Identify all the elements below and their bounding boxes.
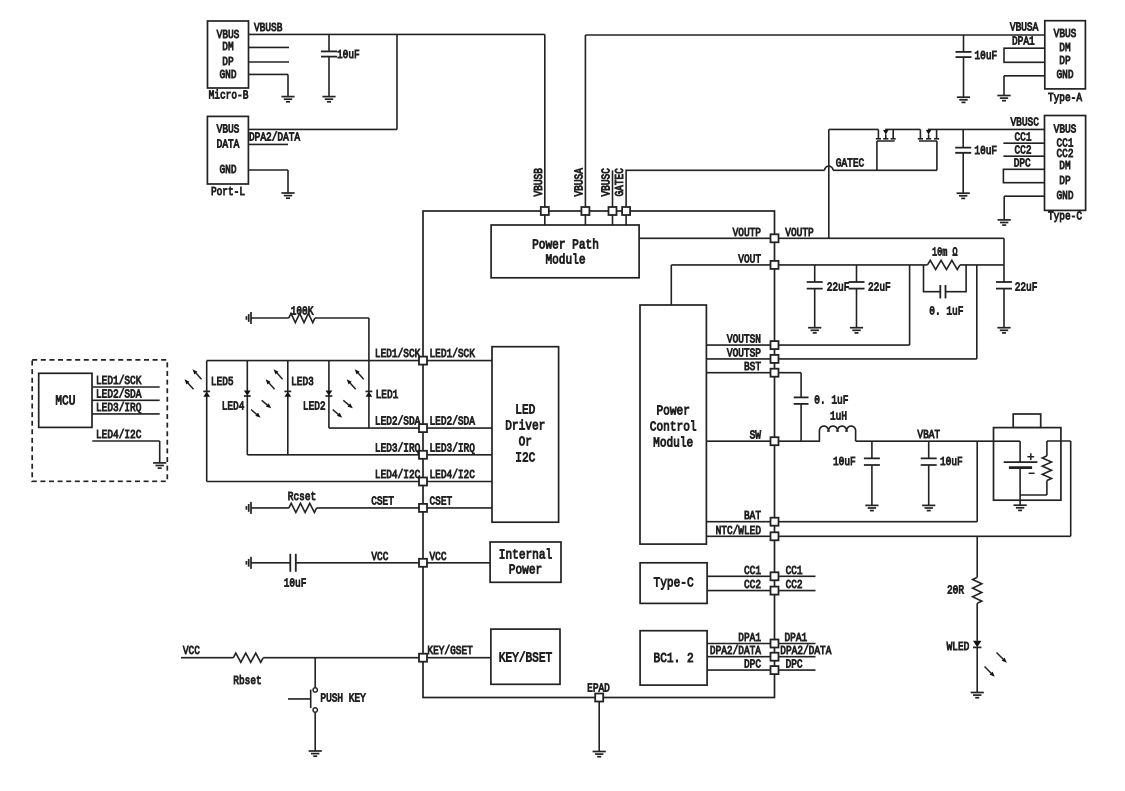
ground Type-A: [997, 96, 1010, 101]
LED D3 branch: [284, 361, 291, 455]
svg-text:LED1: LED1: [376, 388, 399, 402]
svg-text:LED4/I2C: LED4/I2C: [96, 428, 141, 442]
resistor R4 Rcset: [251, 490, 423, 513]
net label NTC/WLED inside: [716, 524, 761, 538]
svg-text:LED3/IRQ: LED3/IRQ: [96, 401, 141, 415]
ground R3 100K: [246, 312, 251, 324]
pin VOUTP: [771, 234, 779, 242]
wire DATA stub: [248, 143, 288, 145]
wire DPC stub: [779, 669, 816, 671]
net label KEY/GSET inside: [427, 644, 472, 658]
wire VBUSB pin stub: [544, 211, 546, 225]
net label DPC outside: [786, 658, 803, 672]
svg-text:LED3/IRQ: LED3/IRQ: [430, 441, 475, 455]
net label VBUSA rotated: [572, 168, 586, 197]
wire VBUSA pin stub: [584, 211, 586, 225]
connector J3 Type-A: [1045, 21, 1086, 105]
svg-text:DM: DM: [222, 40, 233, 54]
wire VBAT rail: [856, 440, 1020, 442]
wire Type-C GND: [1004, 196, 1044, 220]
net label LED3/IRQ left: [375, 441, 420, 455]
wire GATEC pin stub: [625, 211, 627, 225]
ground C4: [808, 328, 821, 333]
pin LED4/I2C: [419, 478, 427, 486]
svg-text:CSET: CSET: [430, 495, 453, 509]
svg-text:10uF: 10uF: [284, 577, 307, 591]
svg-text:Power Path: Power Path: [532, 237, 599, 253]
wire MCU LED3/IRQ stub: [92, 413, 160, 415]
wire VOUTSP to sense: [779, 265, 977, 359]
wire MCU LED4/I2C stub: [92, 441, 159, 463]
pin EPAD: [595, 694, 603, 702]
block Internal Power: [490, 542, 561, 582]
svg-text:DP: DP: [1059, 174, 1070, 188]
net label EPAD: [587, 681, 610, 695]
wire BAT to VBAT: [779, 441, 978, 522]
LED D2 emission arrows: [333, 400, 353, 417]
svg-text:Type-A: Type-A: [1048, 91, 1083, 105]
svg-text:VBUSB: VBUSB: [532, 168, 546, 196]
svg-text:I2C: I2C: [515, 450, 535, 466]
net label VBUSA: [1010, 21, 1039, 35]
pin LED1/SCK: [419, 357, 427, 365]
wire VOUT rail: [779, 264, 1005, 266]
pin NTC/WLED: [771, 532, 779, 540]
svg-text:LED1/SCK: LED1/SCK: [96, 374, 142, 388]
svg-text:DATA: DATA: [217, 138, 240, 152]
net label DPA2/DATA outside: [780, 644, 832, 658]
wire Micro-B GND: [249, 74, 289, 96]
net label CC2 inside: [744, 578, 761, 592]
net label VCC inside: [430, 550, 447, 564]
svg-text:DP: DP: [222, 55, 233, 69]
net label LED4/I2C left: [375, 468, 420, 482]
wire CC1: [707, 575, 774, 577]
pin VOUTSN: [771, 341, 779, 349]
net label CC2 outside: [786, 578, 803, 592]
wire VBUSC pin stub: [612, 170, 614, 225]
capacitor C2 10uF: [956, 35, 998, 97]
pin BST: [771, 369, 779, 377]
svg-text:Rbset: Rbset: [233, 674, 261, 688]
wire CC2 stub: [779, 590, 816, 592]
capacitor C8 0.1uF BST: [779, 373, 849, 442]
wire LED3/IRQ inside: [427, 454, 492, 456]
net label CSET inside: [430, 495, 453, 509]
ground C9: [865, 505, 878, 510]
wire NTC/WLED rail: [779, 535, 1071, 537]
wire WLED drop: [976, 536, 978, 577]
net label LED3/IRQ inside: [430, 441, 475, 455]
LED D6 emission arrows: [985, 653, 1007, 677]
wire VBUSA rail: [585, 35, 1044, 211]
wire SW: [706, 440, 774, 442]
pin BAT: [771, 518, 779, 526]
wire VOUTSN to sense: [779, 265, 910, 345]
MCU dashed enclosure: [32, 360, 167, 481]
ground C10: [922, 505, 935, 510]
svg-text:LED2: LED2: [303, 399, 326, 413]
net label VOUTP outside: [785, 226, 813, 240]
svg-text:GATEC: GATEC: [836, 157, 864, 171]
wire Type-C CC2 stub: [1003, 155, 1044, 157]
LED D1 branch: [366, 361, 373, 429]
svg-text:VBAT: VBAT: [917, 428, 940, 442]
svg-text:MCU: MCU: [55, 394, 75, 410]
svg-text:0. 1uF: 0. 1uF: [814, 394, 848, 408]
svg-text:KEY/GSET: KEY/GSET: [427, 644, 472, 658]
svg-text:10m Ω: 10m Ω: [932, 246, 958, 260]
capacitor C1 10uF: [321, 34, 360, 96]
wire cell to NTC: [1020, 495, 1047, 505]
svg-text:Control: Control: [650, 420, 697, 436]
switch S1 push key: [288, 658, 366, 751]
net label VBUSC rotated: [600, 168, 614, 196]
wire LED2/SDA row: [329, 427, 423, 429]
resistor R5 Rbset: [181, 653, 423, 688]
block BC1.2: [640, 631, 707, 685]
svg-text:LED2/SDA: LED2/SDA: [96, 387, 142, 401]
pin VBUSA: [581, 207, 589, 215]
wire Type-A DM-DP loop: [1004, 48, 1045, 62]
svg-text:Module: Module: [653, 435, 693, 451]
net label VOUT inside: [738, 252, 761, 266]
battery BT1 pack: [994, 414, 1061, 500]
svg-text:22uF: 22uF: [868, 280, 891, 294]
net label DPC: [1014, 157, 1031, 171]
wire MCU LED1/SCK stub: [92, 386, 160, 388]
wire BST: [706, 372, 774, 374]
svg-text:DPA1: DPA1: [785, 631, 808, 645]
net label LED1/SCK inside: [430, 347, 476, 361]
inductor L1 1uH: [819, 410, 855, 442]
connector J4 Type-C: [1045, 116, 1086, 224]
ground WLED: [971, 693, 984, 698]
svg-text:Internal: Internal: [499, 548, 552, 564]
svg-text:22uF: 22uF: [1015, 280, 1038, 294]
svg-text:PUSH KEY: PUSH KEY: [320, 692, 366, 706]
LED D3 label: [291, 375, 314, 389]
capacitor C4 22uF: [807, 265, 850, 328]
block Power Control Module: [640, 305, 706, 544]
wire Port-L VBUS: [248, 34, 397, 129]
svg-text:22uF: 22uF: [827, 280, 850, 294]
capacitor C5 22uF: [849, 265, 891, 328]
wire CC1 stub: [779, 575, 816, 577]
svg-text:Micro-B: Micro-B: [209, 89, 249, 103]
net label VOUTP inside: [733, 226, 761, 240]
wire Type-C DM-DP loop: [1003, 169, 1044, 182]
svg-text:VBUSC: VBUSC: [1011, 115, 1039, 129]
svg-text:DPA2/DATA: DPA2/DATA: [249, 130, 301, 144]
svg-text:VCC: VCC: [371, 550, 388, 564]
pin CC2: [771, 587, 779, 595]
wire MCU LED2/SDA stub: [92, 399, 160, 401]
ground R4 Rcset: [246, 502, 251, 514]
ground Micro-B: [281, 97, 294, 102]
LED D1 label: [376, 388, 399, 402]
svg-text:10uF: 10uF: [337, 48, 360, 62]
svg-text:LED4/I2C: LED4/I2C: [375, 468, 420, 482]
capacitor C7 22uF: [996, 265, 1037, 328]
net label VOUTSN inside: [727, 333, 761, 347]
svg-text:GATEC: GATEC: [613, 168, 627, 196]
wire DPA2/DATA: [707, 656, 774, 658]
wire VBUSC rail left: [829, 128, 879, 130]
ground C7: [997, 328, 1010, 333]
pin VBUSB: [541, 207, 549, 215]
svg-text:KEY/BSET: KEY/BSET: [499, 651, 552, 667]
svg-text:Driver: Driver: [505, 419, 545, 435]
LED D4 branch: [244, 361, 251, 455]
net label CC1 inside: [744, 564, 761, 578]
net label GATEC rotated: [613, 168, 627, 196]
capacitor C10 10uF: [921, 441, 963, 505]
net label VBUSC: [1011, 115, 1039, 129]
pin CSET: [419, 504, 427, 512]
net label CSET left: [371, 495, 394, 509]
svg-text:DPA1: DPA1: [1012, 35, 1035, 49]
wire DPC: [707, 669, 774, 671]
svg-text:VBUSC: VBUSC: [600, 168, 614, 196]
wire CSET inside: [427, 507, 492, 509]
svg-text:Port-L: Port-L: [211, 185, 245, 199]
svg-text:10uF: 10uF: [833, 455, 856, 469]
net label MCU LED3/IRQ: [96, 401, 141, 415]
svg-text:CC1: CC1: [786, 564, 803, 578]
pin SW: [771, 437, 779, 445]
ground Type-C: [998, 220, 1011, 225]
pin VOUT: [771, 261, 779, 269]
svg-text:VBUS: VBUS: [1054, 122, 1077, 136]
LED D5 emission arrows: [185, 369, 202, 389]
net label MCU LED2/SDA: [96, 387, 142, 401]
svg-text:BC1. 2: BC1. 2: [654, 651, 694, 667]
ground C2: [957, 97, 970, 102]
svg-text:LED3/IRQ: LED3/IRQ: [375, 441, 420, 455]
IC U1 outline: [423, 211, 775, 698]
LED D3 emission arrows: [266, 369, 283, 389]
wire DPA2/DATA stub: [779, 656, 816, 658]
wire EPAD to gnd: [598, 702, 600, 752]
wire LED1/SCK inside: [427, 360, 492, 362]
net label CC1: [1015, 131, 1032, 145]
ground EPAD: [593, 752, 606, 757]
svg-text:GND: GND: [1057, 68, 1074, 82]
svg-text:LED3: LED3: [291, 375, 314, 389]
pin KEY/GSET: [419, 654, 427, 662]
wire Port-L GND: [248, 170, 288, 193]
svg-text:DM: DM: [1059, 159, 1070, 173]
net label VBUSB rotated: [532, 168, 546, 196]
IC U2 MCU: [39, 373, 92, 427]
net label DPA2/DATA inside: [710, 644, 762, 658]
ground C3: [957, 193, 970, 198]
net label MCU LED1/SCK: [96, 374, 142, 388]
LED D1 emission arrows: [347, 369, 364, 389]
net label SW inside: [750, 429, 762, 443]
LED D4 emission arrows: [251, 400, 271, 417]
wire VOUTP riser: [828, 129, 830, 238]
resistor R2 20R: [947, 577, 982, 603]
wire VOUTP inside: [639, 237, 774, 239]
net label LED2/SDA left: [375, 415, 421, 429]
svg-text:VCC: VCC: [183, 644, 200, 658]
ground C5: [850, 328, 863, 333]
wire DPA1 stub: [779, 643, 816, 645]
net label DPC inside: [744, 658, 761, 672]
svg-text:VBUSA: VBUSA: [572, 168, 586, 197]
pin VOUTSP: [771, 355, 779, 363]
svg-text:Or: Or: [519, 434, 532, 450]
svg-text:10uF: 10uF: [975, 49, 998, 63]
battery BT1 cell: [1004, 441, 1038, 495]
net label LED2/SDA inside: [430, 415, 476, 429]
wire MOSFET bridge: [885, 128, 920, 130]
LED D4 label: [222, 399, 245, 413]
block LED Driver Or I2C: [492, 347, 559, 523]
resistor R3 100K: [251, 304, 369, 360]
net label DPA1 inside: [738, 631, 761, 645]
net label CC2: [1015, 144, 1032, 158]
svg-text:Type-C: Type-C: [1048, 210, 1082, 224]
wire NTC/WLED: [706, 535, 774, 537]
net label DPA1 outside: [785, 631, 808, 645]
wire VOUTSP: [706, 358, 774, 360]
svg-text:LED1/SCK: LED1/SCK: [430, 347, 476, 361]
svg-text:DPA2/DATA: DPA2/DATA: [780, 644, 832, 658]
net label BST inside: [744, 360, 761, 374]
svg-text:DP: DP: [1059, 54, 1070, 68]
svg-text:DPC: DPC: [786, 658, 803, 672]
svg-text:LED2/SDA: LED2/SDA: [430, 415, 476, 429]
pin GATEC: [622, 207, 630, 215]
LED D5 label: [211, 375, 234, 389]
connector J2 Port-L: [207, 116, 248, 199]
net label VBAT: [917, 428, 940, 442]
svg-text:Power: Power: [657, 404, 690, 420]
net label CC1 outside: [786, 564, 803, 578]
resistor R1 10mOhm: [928, 246, 961, 270]
svg-text:Rcset: Rcset: [288, 490, 316, 504]
pin LED2/SDA: [419, 424, 427, 432]
svg-text:WLED: WLED: [947, 640, 970, 654]
svg-text:LED2/SDA: LED2/SDA: [375, 415, 421, 429]
wire DM stub: [249, 46, 290, 48]
capacitor C6 0.1uF: [924, 265, 967, 318]
wire Type-A GND: [1004, 76, 1045, 96]
pin VCC: [419, 559, 427, 567]
wire VBUSB rail: [249, 34, 545, 211]
wire LED4/I2C row: [207, 481, 423, 483]
svg-text:DM: DM: [1059, 41, 1070, 55]
wire LED4/I2C inside: [427, 481, 492, 483]
capacitor C11 10uF: [251, 554, 423, 591]
ground C11 VCC: [246, 557, 251, 569]
svg-text:0. 1uF: 0. 1uF: [929, 304, 963, 318]
connector J1 Micro-B: [208, 21, 249, 103]
svg-text:1uH: 1uH: [830, 410, 847, 424]
svg-text:CC2: CC2: [786, 578, 803, 592]
pin VBUSC: [609, 207, 617, 215]
net label VBUSB: [254, 21, 282, 35]
svg-text:GND: GND: [220, 68, 237, 82]
LED D2 label: [303, 399, 326, 413]
wire BAT: [706, 521, 774, 523]
ground battery: [1014, 505, 1027, 510]
wire Type-C CC1 stub: [1003, 142, 1044, 144]
capacitor C9 10uF: [833, 441, 880, 505]
svg-text:VBUSA: VBUSA: [1010, 21, 1039, 35]
net label BAT inside: [744, 509, 761, 523]
wire VOUTSN: [706, 344, 774, 346]
wire NTC out: [1047, 441, 1071, 536]
wire WLED to gnd: [976, 647, 978, 692]
net label DPA1: [1012, 35, 1035, 49]
wire CC2: [707, 590, 774, 592]
pin DPA1: [771, 640, 779, 648]
wire GATEC: [626, 166, 937, 211]
pin LED3/IRQ: [419, 451, 427, 459]
net label VCC left: [371, 550, 388, 564]
net label LED4/I2C inside: [430, 468, 475, 482]
svg-text:LED: LED: [515, 403, 535, 419]
ground MCU LED4/I2C: [153, 463, 166, 468]
wire VBUSC rail right: [928, 128, 1045, 130]
svg-text:10uF: 10uF: [974, 144, 997, 158]
LED D5 branch: [203, 361, 210, 482]
wire VCC inside: [427, 562, 490, 564]
net label MCU LED4/I2C: [96, 428, 141, 442]
transistor Q1: [876, 129, 896, 170]
wire LED2/SDA inside: [427, 427, 492, 429]
net label LED1/SCK left: [375, 347, 421, 361]
svg-text:100K: 100K: [291, 304, 314, 318]
net label VOUTSP inside: [727, 346, 761, 360]
svg-text:VBUSB: VBUSB: [254, 21, 282, 35]
wire KEY/GSET inside: [427, 657, 491, 659]
svg-text:LED1/SCK: LED1/SCK: [375, 347, 421, 361]
ground S1: [309, 751, 322, 756]
wire VOUT inside: [671, 265, 774, 305]
svg-text:20R: 20R: [947, 583, 964, 597]
net label GATEC: [836, 157, 864, 171]
svg-text:GND: GND: [1057, 189, 1074, 203]
wire LED bus: [207, 360, 423, 362]
pin DPC: [771, 666, 779, 674]
svg-text:LED4/I2C: LED4/I2C: [430, 468, 475, 482]
capacitor C3 10uF: [955, 129, 997, 193]
svg-text:LED4: LED4: [222, 399, 245, 413]
LED D2 branch: [326, 361, 333, 429]
svg-text:10uF: 10uF: [940, 455, 963, 469]
block Type-C (U1): [640, 563, 707, 604]
ground C1: [322, 97, 335, 102]
wire SW to inductor: [779, 440, 821, 442]
net label DPA2/DATA: [249, 130, 301, 144]
wire LED3/IRQ row: [247, 454, 423, 456]
ground Port-L: [281, 193, 294, 198]
svg-text:GND: GND: [220, 163, 237, 177]
pin CC1: [771, 572, 779, 580]
svg-text:Module: Module: [545, 253, 585, 269]
LED D6 WLED: [947, 640, 982, 654]
transistor Q2: [918, 129, 939, 170]
svg-text:VBUS: VBUS: [217, 123, 240, 137]
net label VCC Rbset: [183, 644, 200, 658]
block Power Path Module: [491, 225, 639, 278]
block KEY/BSET: [491, 629, 560, 684]
